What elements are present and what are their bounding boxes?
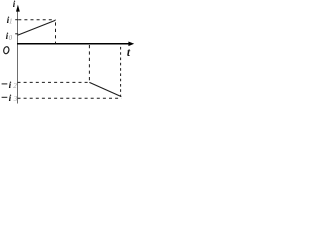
dashed horizontal at -i3 bbox=[18, 97, 122, 99]
t axis arrowhead bbox=[128, 42, 134, 47]
svg-text:0: 0 bbox=[9, 34, 13, 42]
tick i0 bbox=[15, 33, 18, 35]
origin label O bbox=[3, 46, 10, 54]
i axis arrowhead bbox=[16, 5, 20, 12]
svg-text:1: 1 bbox=[9, 18, 13, 26]
label -i2 minus bbox=[2, 83, 8, 85]
label -i3 minus bbox=[2, 96, 8, 98]
dashed vertical at t3 bbox=[120, 47, 122, 97]
background bbox=[0, 0, 135, 107]
svg-text:3: 3 bbox=[13, 95, 18, 103]
dashed horizontal at i1 bbox=[18, 19, 55, 21]
dashed horizontal at -i2 bbox=[18, 81, 90, 83]
dashed vertical at t1 bbox=[55, 22, 57, 43]
i axis (vertical) bbox=[17, 9, 19, 104]
dashed vertical at t2 bbox=[88, 45, 90, 82]
svg-text:2: 2 bbox=[13, 82, 17, 90]
svg-text:i: i bbox=[9, 94, 12, 104]
svg-text:i: i bbox=[9, 81, 12, 91]
tick i1 bbox=[15, 19, 18, 21]
ramp i0 to i1 (solid) bbox=[18, 20, 56, 35]
t axis (horizontal) bbox=[17, 43, 130, 45]
falling segment -i2 to -i3 (solid) bbox=[89, 82, 121, 96]
